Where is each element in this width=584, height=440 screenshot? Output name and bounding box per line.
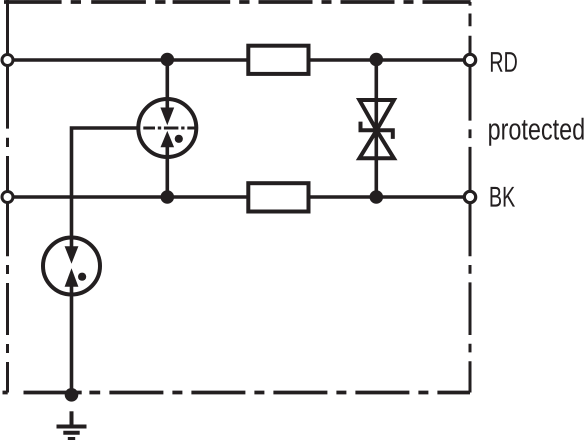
gas discharge tube F2 (2-electrode arrester) xyxy=(65,246,87,287)
enclosure border right (dash-dot) xyxy=(469,2,472,393)
wire BK line left segment xyxy=(13,195,248,199)
GDT F2 lower electrode arrow xyxy=(65,268,79,287)
node: BK line / TVS junction xyxy=(370,190,384,204)
label RD xyxy=(491,52,517,72)
GDT F1 center electrode dash-dot line xyxy=(143,127,196,130)
GDT F1 lower electrode arrow xyxy=(161,131,175,147)
terminal: left line 1 (unprotected RD) xyxy=(2,55,13,66)
label BK xyxy=(491,187,515,207)
wire suppressor diode vertical through xyxy=(374,58,378,197)
wire GDT F2 bottom lead to earth bus xyxy=(70,283,74,393)
label protected xyxy=(489,118,584,146)
TVS zener bar with hooks xyxy=(361,122,393,139)
GDT F2 gas-filled indicator dot xyxy=(78,273,86,281)
gas discharge tube F1 (3-electrode arrester) xyxy=(143,108,196,148)
node: RD line / TVS junction xyxy=(370,53,384,67)
terminal: protected BK xyxy=(464,191,475,202)
suppressor diode (bidirectional TVS) xyxy=(359,100,394,158)
wire GDT F1 center electrode to down-conductor xyxy=(72,128,141,250)
GDT F2 upper electrode arrow xyxy=(65,246,79,264)
GDT F1 gas-filled indicator dot xyxy=(175,135,183,143)
wire RD line right segment xyxy=(309,58,465,62)
wire GDT F1 top lead xyxy=(166,58,170,115)
wire BK line right segment xyxy=(309,195,465,199)
GDT F1 upper electrode arrow xyxy=(160,108,174,126)
wire GDT F1 bottom lead xyxy=(166,142,170,197)
resistor R1 xyxy=(248,46,308,74)
resistor R2 xyxy=(248,183,308,211)
node: BK line / GDT F1 junction xyxy=(161,190,175,204)
enclosure border bottom (dash-dot) xyxy=(3,391,471,395)
ground xyxy=(57,411,87,439)
enclosure border left (solid above RD terminal, dash-dot below) xyxy=(6,0,9,393)
terminal: left line 2 (unprotected BK) xyxy=(2,192,13,203)
node: earth bus junction xyxy=(65,388,79,402)
enclosure border top (dash-dot) xyxy=(4,0,471,4)
gas discharge tube F2 body xyxy=(43,238,100,295)
node: RD line / GDT F1 junction xyxy=(161,53,175,67)
TVS upper triangle xyxy=(359,100,394,130)
gas discharge tube F1 body xyxy=(138,99,196,157)
TVS lower triangle xyxy=(359,130,394,158)
wire RD line left segment xyxy=(13,58,248,62)
terminal: protected RD xyxy=(464,54,475,65)
